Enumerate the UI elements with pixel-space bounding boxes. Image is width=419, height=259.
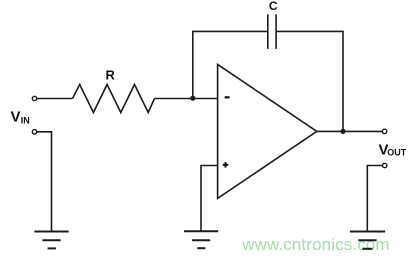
wire output — [317, 130, 383, 132]
svg-text:OUT: OUT — [387, 147, 407, 157]
label VOUT — [379, 142, 407, 159]
wire VIN return to ground — [37, 132, 52, 231]
node VIN return terminal — [32, 130, 36, 134]
junction inverting input node — [190, 96, 195, 101]
op-amp U1 — [218, 64, 317, 198]
svg-text:R: R — [106, 67, 116, 82]
junction output node — [340, 129, 345, 134]
node VIN terminal — [32, 96, 36, 100]
ground right — [350, 232, 385, 249]
wire input to resistor — [37, 98, 73, 100]
resistor R — [73, 85, 155, 113]
svg-text:www.cntronics.com: www.cntronics.com — [241, 235, 390, 254]
wire resistor to op-amp inverting input — [155, 98, 218, 100]
wire noninverting input to ground — [201, 166, 218, 231]
svg-text:V: V — [11, 109, 21, 126]
wire feedback left vertical — [193, 31, 267, 98]
capacitor C — [268, 14, 276, 49]
label VIN — [11, 109, 30, 126]
wire VOUT return to ground — [367, 166, 382, 232]
node VOUT terminal — [382, 129, 386, 133]
op-amp minus pin mark — [225, 96, 230, 98]
ground middle — [184, 231, 218, 248]
op-amp plus pin mark — [223, 162, 229, 168]
svg-text:C: C — [269, 0, 278, 13]
svg-text:IN: IN — [21, 116, 30, 126]
wire feedback right — [276, 31, 343, 131]
node VOUT return terminal — [383, 163, 387, 167]
ground left — [34, 232, 68, 249]
